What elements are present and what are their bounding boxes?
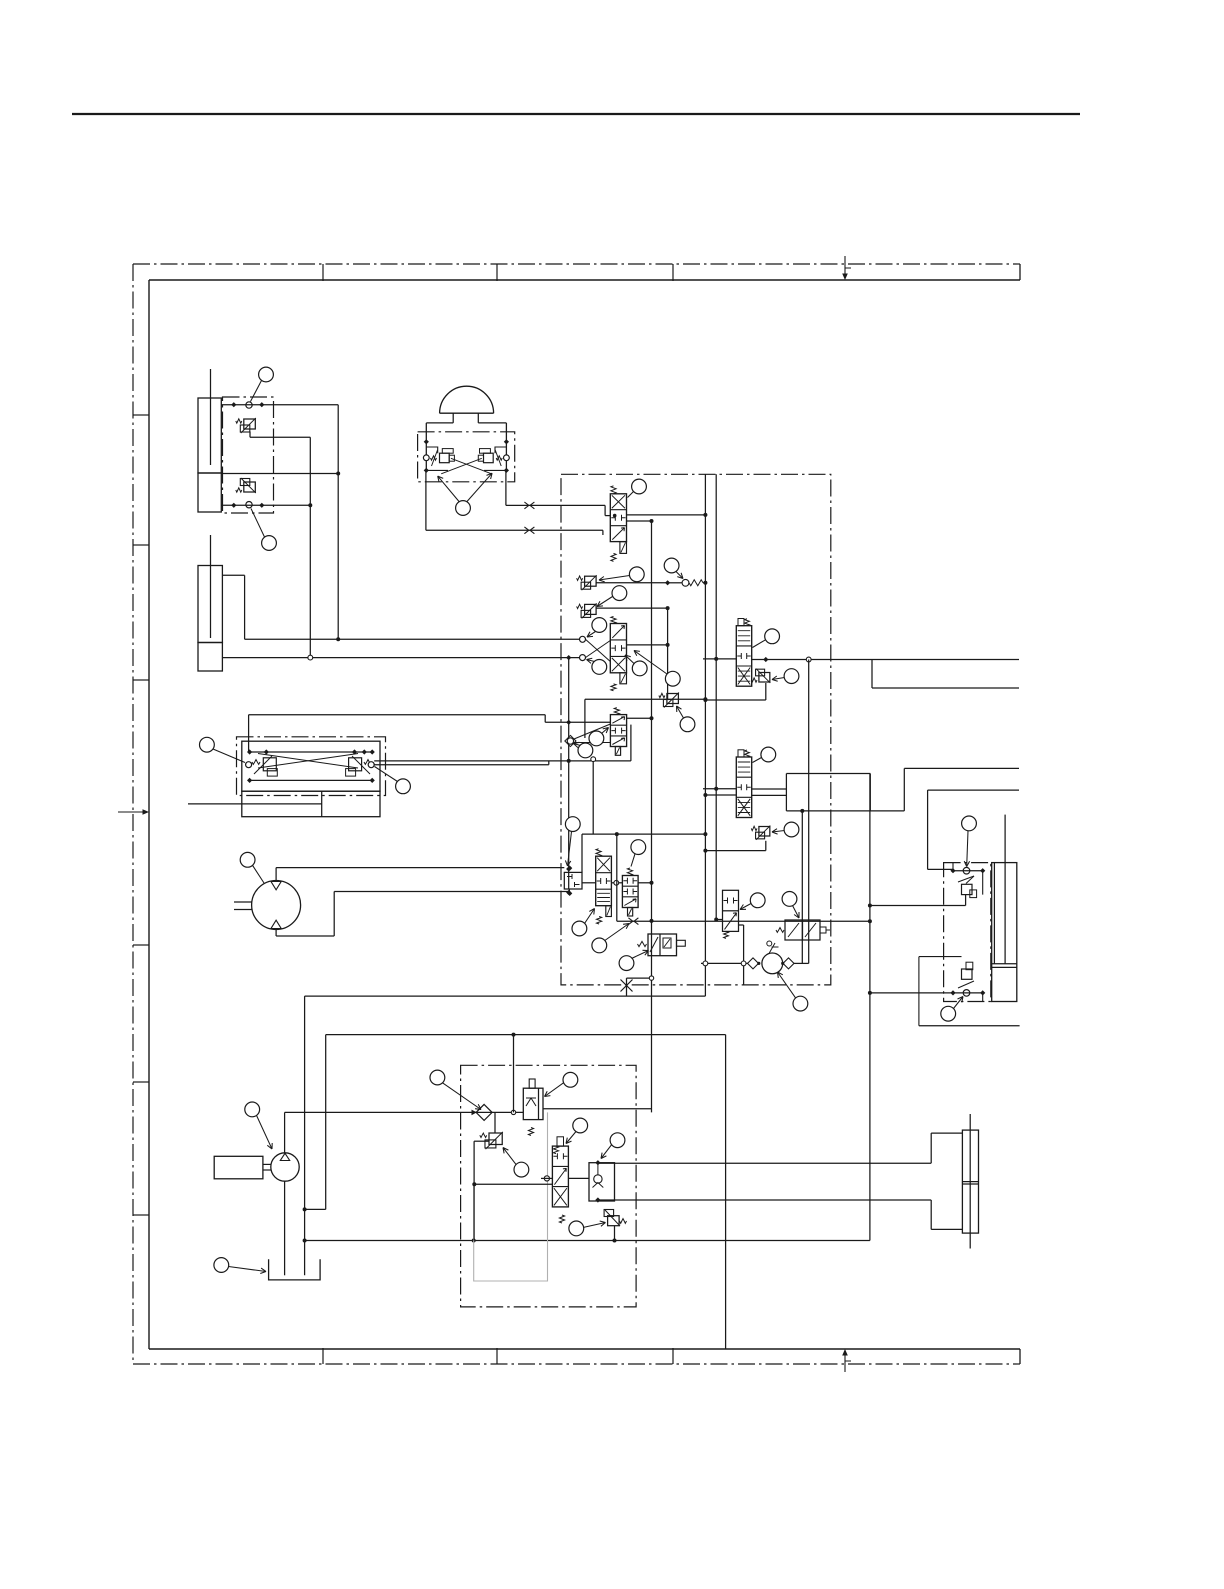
pilot line 1 — [505, 472, 507, 506]
callout balloon 5 — [629, 567, 644, 582]
port node P1a — [246, 402, 252, 408]
left drain bus — [568, 658, 570, 890]
cylinder wire lower — [598, 1199, 931, 1201]
check diamond HP right — [783, 958, 794, 969]
return line into tank — [304, 996, 306, 1275]
tick left 4 — [133, 944, 149, 946]
coupling on pilot line 2 — [524, 527, 534, 534]
center valve block dash-dot boundary — [561, 474, 831, 985]
wire P1b — [221, 504, 310, 506]
feed to right cylinder block — [927, 790, 929, 869]
port node center B — [580, 655, 586, 661]
coupling on pilot line 1 — [524, 502, 534, 509]
tank return rail — [305, 1240, 870, 1242]
drain RVa — [765, 683, 767, 700]
pilot drop 2 — [801, 811, 803, 964]
wire bus from block1 B — [309, 437, 311, 657]
remote control valve dash-dot boundary — [418, 432, 515, 482]
remote control valve knob dome — [440, 386, 494, 413]
drain stub RV4 — [584, 699, 586, 738]
wire CYL1 mid — [221, 473, 338, 475]
wire HP right — [794, 962, 809, 964]
prime mover E1 — [214, 1156, 263, 1179]
bus RV3 to relief line — [667, 608, 669, 699]
wire V2 right mid — [627, 644, 668, 646]
motor line B — [275, 929, 277, 936]
callout balloon 7 — [664, 558, 679, 573]
CB valve top — [963, 867, 970, 874]
V4/V5 enclosure bottom — [617, 920, 652, 922]
pump P1 — [271, 1153, 299, 1181]
wire to center block port B — [222, 657, 579, 659]
CB manifold dash-dot boundary — [237, 737, 386, 796]
cylinder CYL2 rod — [210, 535, 212, 638]
wire V6 left A — [474, 1183, 552, 1185]
junction diamonds RC — [424, 439, 429, 444]
tick bottom 3 — [672, 1348, 674, 1364]
pilot line 1 jog — [604, 505, 606, 515]
callout balloon 29 — [784, 822, 799, 837]
callout balloon 8 — [592, 618, 607, 633]
wire V6 to PC1 — [568, 1177, 589, 1179]
wire VB in A — [703, 788, 736, 790]
tick left 3 — [133, 679, 149, 681]
small pilot valve SV1 — [723, 890, 739, 931]
pilot relief valve RV4 — [667, 694, 679, 704]
callout balloon 33 — [214, 1258, 229, 1273]
relief valve RVb — [759, 827, 770, 837]
CB valve bottom — [962, 969, 973, 979]
aux block inner gray lines — [474, 1112, 548, 1281]
callout balloon 21 — [592, 938, 607, 953]
wire right long 4 — [928, 789, 1019, 791]
travel valve VB — [736, 757, 751, 818]
lift cylinder CYL3 — [992, 863, 1017, 1002]
drain RV6 — [614, 1226, 616, 1241]
CB feed left vertical — [248, 715, 250, 752]
steering unit — [648, 934, 677, 956]
port node P1b — [246, 502, 252, 508]
wire P1a — [221, 404, 338, 406]
drain wire lower — [374, 760, 631, 762]
callout balloon 30 — [962, 816, 977, 831]
wire V1 out A — [627, 514, 706, 516]
pilot line 2 — [425, 472, 427, 531]
bus line pump feed — [651, 521, 653, 1112]
tilt cylinder rod line — [969, 1114, 971, 1249]
cylinder CYL2 base — [198, 643, 222, 672]
directional valve V3 — [610, 715, 626, 747]
callout balloon 11 — [665, 671, 680, 686]
branch VA drop — [871, 660, 873, 689]
wire RV3a out — [596, 582, 668, 584]
callout balloon 24 — [782, 892, 797, 907]
CB valve left — [263, 758, 276, 771]
wire V4-V5 — [611, 882, 622, 884]
wire V1 out B — [627, 520, 652, 522]
callout balloon 3 — [456, 501, 471, 516]
callout balloon 22 — [619, 956, 634, 971]
pilot line from VA wire — [808, 660, 810, 964]
aux block dash-dot boundary — [461, 1065, 636, 1307]
right block return bus — [869, 774, 871, 1241]
tick top 1 — [322, 264, 324, 281]
CB internal top rail — [250, 751, 373, 753]
suction filter F1 — [476, 1104, 492, 1120]
V4/V5 enclosure left — [616, 834, 618, 921]
CB manifold body — [242, 741, 380, 791]
tick left 5 — [133, 1081, 149, 1083]
callout balloon 23 — [750, 893, 765, 908]
CB valve right — [349, 758, 362, 771]
wire A upper rail — [582, 833, 705, 835]
bus line T — [715, 474, 717, 919]
wire to center block port A — [245, 638, 580, 640]
block drain jog at boundary — [626, 978, 628, 996]
callout balloon 6 — [612, 586, 627, 601]
frame right end cap top — [1019, 264, 1021, 280]
wire V6 left B — [541, 1177, 552, 1179]
reference arrow bottom bar — [844, 1353, 846, 1372]
callout balloon 36 — [514, 1162, 529, 1177]
wire V3 out right — [627, 717, 652, 719]
wire VA branch long — [872, 687, 1019, 689]
pump discharge — [284, 1112, 286, 1152]
callout balloon 25 — [793, 996, 808, 1011]
callout balloon 31 — [941, 1006, 956, 1021]
travel valve VA — [736, 626, 751, 687]
callout balloon 26 — [765, 629, 780, 644]
pressure reducer left — [440, 453, 450, 463]
callout balloon 34 — [430, 1070, 445, 1085]
remote control valve neck — [452, 413, 454, 423]
callout balloon 16 — [396, 779, 411, 794]
cylinder CYL2 tube — [198, 566, 222, 643]
inlet wire from manifold top — [249, 714, 546, 716]
relief valve RV1a — [244, 419, 256, 429]
relief valve RV3b — [585, 604, 597, 614]
pump suction — [284, 1181, 286, 1275]
pump line through filter — [285, 1111, 524, 1113]
callout balloon 37 — [573, 1118, 588, 1133]
pressure reducer right — [484, 453, 494, 463]
return line 2 — [325, 1035, 327, 1210]
wire CB bottom — [870, 992, 953, 994]
callout balloon 4 — [632, 479, 647, 494]
unloader valve CV1 — [523, 1088, 543, 1119]
machine outline dash-dot frame — [133, 263, 1020, 265]
drain drop to wire A — [592, 761, 594, 834]
wire into slew cylinder — [188, 803, 242, 805]
callout balloon 17 — [240, 852, 255, 867]
wire block drain to right — [652, 920, 870, 922]
tick bottom 1 — [322, 1348, 324, 1364]
relief valve RV1b — [244, 482, 256, 492]
bus line P — [704, 474, 706, 996]
frame right end cap bottom — [1019, 1349, 1021, 1364]
main control valve V6 — [552, 1146, 568, 1207]
solenoid V1 — [620, 542, 627, 554]
callout balloon 12 — [680, 717, 695, 732]
lift cylinder rod — [1004, 815, 1006, 863]
steering unit right stub — [677, 940, 686, 946]
relief valve RV6 — [608, 1216, 620, 1226]
wire right long 3 — [904, 767, 1019, 769]
CB internal bottom rail — [250, 779, 373, 781]
solenoid V4 — [606, 906, 612, 917]
cylinder CYL1 rod — [210, 369, 212, 465]
solenoid V2 — [620, 673, 627, 684]
callout balloon 13 — [589, 731, 604, 746]
frame hydraulic line bottom — [149, 1348, 1020, 1350]
hydraulic motor M1 — [252, 881, 301, 930]
enclosure CB bottom — [919, 957, 983, 1026]
wire VA in — [703, 658, 736, 660]
wire V5 out — [638, 882, 651, 884]
frame hydraulic line top — [149, 279, 1020, 281]
remote control valve body — [426, 422, 453, 424]
shuttle feed vertical — [581, 834, 583, 872]
tick bottom 2 — [496, 1348, 498, 1364]
callout balloon 9 — [592, 660, 607, 675]
callout balloon 27 — [784, 669, 799, 684]
relief valve RV3a — [585, 576, 597, 586]
CB valve block dash-dot boundary — [944, 863, 991, 1002]
make-up check with spring — [665, 580, 670, 585]
pilot cross lines — [451, 458, 492, 474]
callout balloon 39 — [569, 1221, 584, 1236]
pilot lines V3 — [574, 724, 610, 739]
wire RV1a drain — [249, 432, 251, 438]
coupling X at boundary — [621, 980, 633, 992]
directional valve V1 — [610, 494, 626, 542]
page top rule — [72, 113, 1080, 115]
wire jog to CYL4 top — [930, 1133, 932, 1163]
slew cylinder body — [242, 791, 380, 817]
pressure switch valve SV2 — [785, 920, 820, 940]
enclosure CB top — [953, 863, 983, 895]
callout balloon 15 — [200, 737, 215, 752]
wire shuttle to V4 — [582, 882, 596, 884]
hand pump HP — [762, 953, 783, 974]
wire SV1 left — [716, 919, 722, 921]
callout balloon 2 — [262, 536, 277, 551]
suction return wires — [305, 995, 706, 997]
tick left 2 — [133, 544, 149, 546]
port node RC left — [423, 455, 429, 461]
callout balloon 38 — [610, 1133, 625, 1148]
CB right port wire — [374, 764, 549, 766]
callout balloon 35 — [563, 1072, 578, 1087]
callout balloon 28 — [761, 747, 776, 762]
cylinder CYL1 tube — [198, 398, 221, 473]
reference arrow top bar — [844, 256, 846, 276]
cylinder wire upper — [598, 1162, 931, 1164]
relief valve RVa — [759, 673, 770, 683]
tank T1 — [269, 1259, 321, 1280]
wire HP left — [701, 962, 748, 964]
wire VB in B — [705, 794, 736, 796]
motor shaft — [234, 901, 252, 903]
reference arrow left bar — [118, 811, 144, 813]
coupling on enclosure bottom — [628, 918, 638, 925]
tick top 3 — [672, 264, 674, 281]
relief RV5 drain vertical — [473, 1141, 475, 1240]
callout balloon 18 — [565, 817, 580, 832]
solenoid V5 — [628, 908, 633, 917]
motor line A — [275, 868, 277, 882]
wire VA out long — [752, 659, 1019, 661]
solenoid V3 — [615, 747, 620, 756]
callout balloon 32 — [245, 1102, 260, 1117]
callout balloon 10 — [632, 661, 647, 676]
coupling E1-P1 — [263, 1163, 271, 1165]
pilot cross lines V2 — [585, 639, 610, 661]
port node CB right — [368, 762, 374, 768]
directional valve V4 — [596, 856, 612, 906]
wire bus from block1 A — [337, 405, 339, 640]
wire CYL2 top port — [222, 574, 244, 576]
relief line — [585, 698, 706, 700]
callout balloon 19 — [572, 921, 587, 936]
wire SV1 down — [739, 924, 744, 926]
callout balloon 14 — [578, 743, 593, 758]
tick top 2 — [496, 264, 498, 281]
callout balloon 20 — [631, 840, 646, 855]
tick left 1 — [133, 414, 149, 416]
drain RVb — [765, 841, 767, 851]
port node V6 — [544, 1176, 549, 1181]
frame hydraulic line left — [148, 280, 150, 1349]
directional valve V2 — [610, 624, 626, 673]
drain CB top — [965, 895, 967, 906]
callout balloon 1 — [259, 367, 274, 382]
port node center A — [580, 636, 586, 642]
shuttle valve box — [564, 872, 582, 889]
low return long wire — [326, 1034, 726, 1036]
valve V3 drain loop — [630, 725, 632, 761]
compensator valve V5 — [622, 876, 638, 908]
tilt cylinder CYL4 — [962, 1130, 978, 1233]
valve block VB1 dash-dot boundary — [223, 397, 274, 513]
wire VB out jog — [752, 788, 787, 790]
port node CB left — [246, 762, 252, 768]
wire to port long — [919, 1025, 1020, 1027]
port node V3 — [565, 735, 576, 746]
check diamond HP left — [748, 958, 759, 969]
pilot check valve PC1 — [589, 1163, 615, 1201]
return to frame — [725, 1035, 727, 1349]
port node RC right — [504, 455, 510, 461]
tick left 6 — [133, 1214, 149, 1216]
wire RV3b out — [596, 607, 668, 609]
wire jog to CYL4 bottom — [930, 1200, 932, 1229]
relief valve RV5 — [489, 1133, 502, 1145]
cylinder CYL1 base — [198, 473, 221, 512]
feed to riser — [543, 1108, 652, 1110]
block feed vertical — [513, 1035, 515, 1113]
CB pilot cross lines — [258, 754, 358, 769]
